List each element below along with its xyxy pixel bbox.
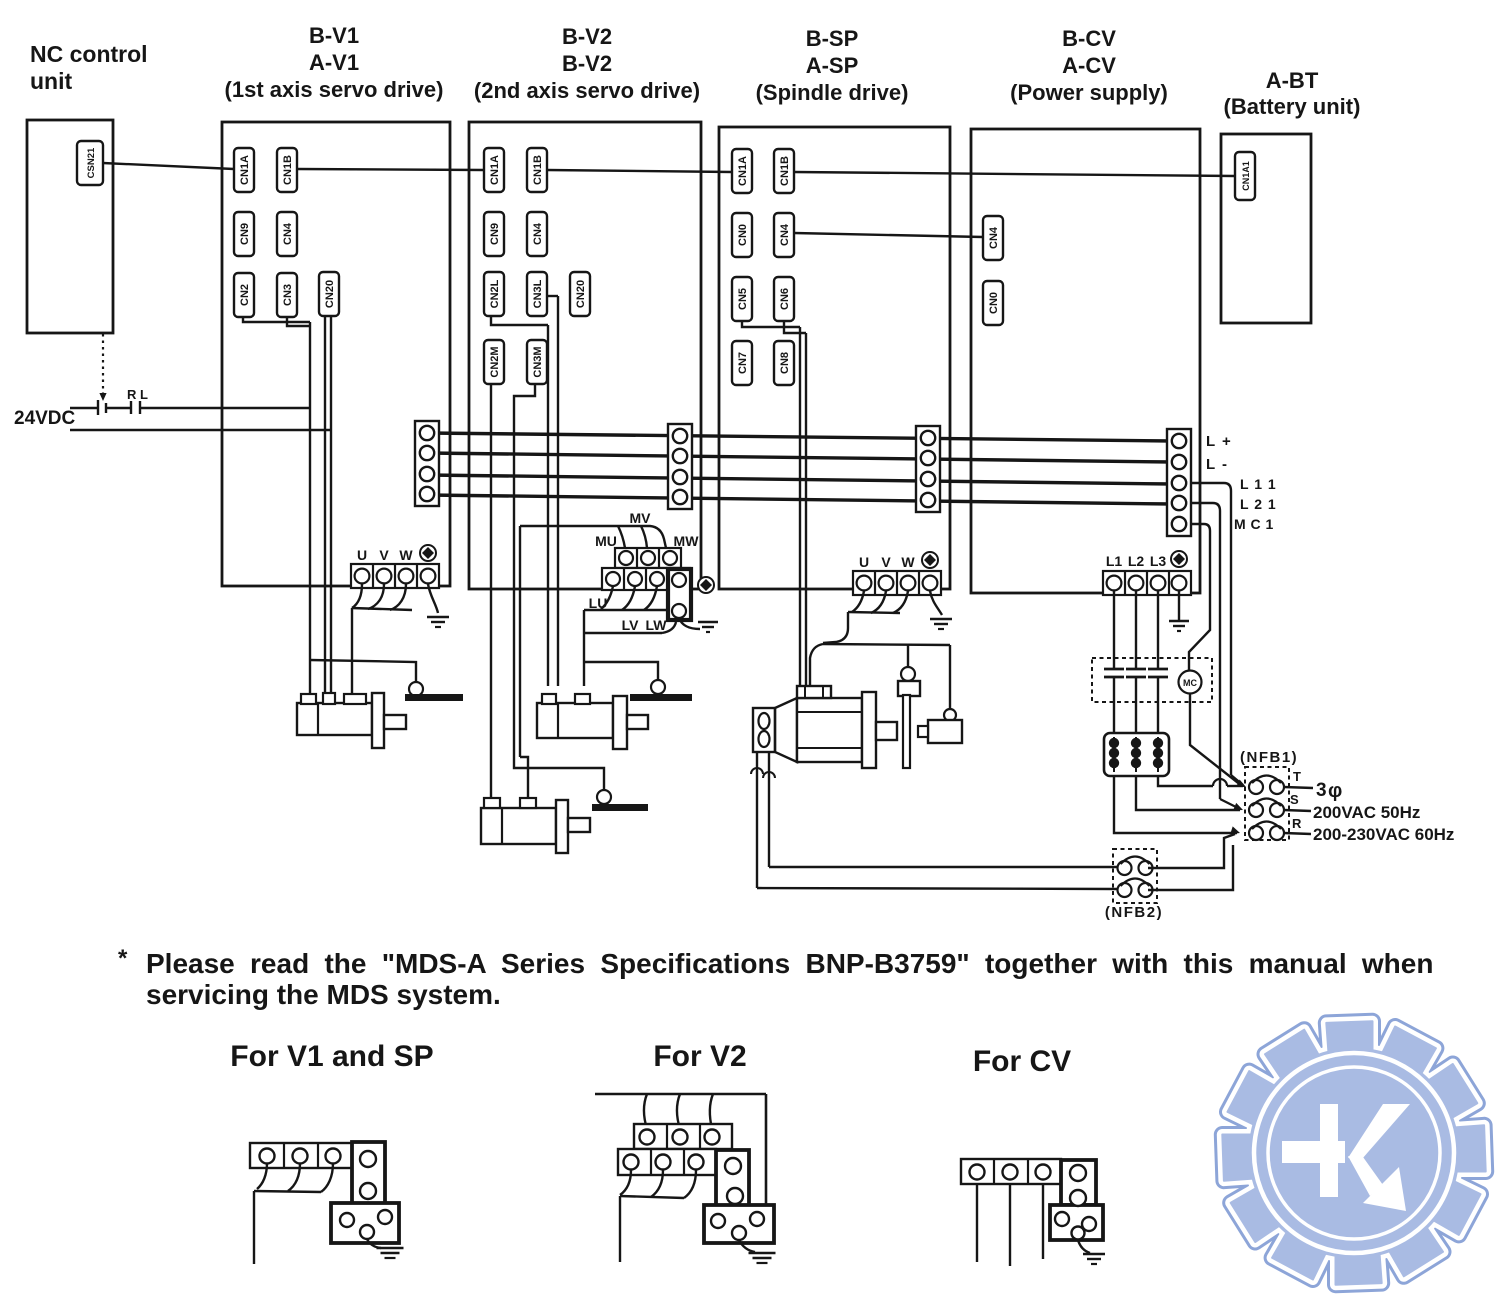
svg-text:W: W xyxy=(399,547,413,563)
svg-text:CN4: CN4 xyxy=(532,222,544,245)
svg-text:CN0: CN0 xyxy=(988,292,1000,314)
svg-text:Please read the "MDS-A Series: Please read the "MDS-A Series Specificat… xyxy=(146,948,1433,979)
svg-text:CN1B: CN1B xyxy=(532,155,544,185)
svg-text:CN3L: CN3L xyxy=(532,279,544,308)
svg-text:(Battery unit): (Battery unit) xyxy=(1224,94,1361,119)
svg-text:MU: MU xyxy=(595,533,617,549)
svg-text:V: V xyxy=(379,547,389,563)
svg-text:A-BT: A-BT xyxy=(1266,68,1319,93)
svg-text:CN6: CN6 xyxy=(779,288,791,310)
svg-text:L 1 1: L 1 1 xyxy=(1240,476,1277,492)
svg-text:L1: L1 xyxy=(1106,553,1123,569)
svg-text:φ: φ xyxy=(1328,780,1342,802)
svg-text:CN7: CN7 xyxy=(737,352,749,374)
svg-text:LV: LV xyxy=(622,617,640,633)
svg-text:200VAC 50Hz: 200VAC 50Hz xyxy=(1313,803,1420,822)
svg-text:For CV: For CV xyxy=(973,1045,1071,1078)
svg-text:B-CV: B-CV xyxy=(1062,26,1116,51)
svg-text:B-SP: B-SP xyxy=(806,26,859,51)
svg-text:24VDC: 24VDC xyxy=(14,408,76,429)
svg-text:R: R xyxy=(1292,816,1302,831)
svg-text:L 2 1: L 2 1 xyxy=(1240,496,1277,512)
svg-text:CN1A: CN1A xyxy=(239,155,251,185)
svg-text:CN9: CN9 xyxy=(239,223,251,245)
svg-text:CN2M: CN2M xyxy=(489,346,501,377)
svg-text:For V2: For V2 xyxy=(653,1040,746,1073)
svg-text:B-V2: B-V2 xyxy=(562,24,612,49)
svg-text:CN1B: CN1B xyxy=(779,156,791,186)
svg-text:CN20: CN20 xyxy=(575,280,587,308)
svg-text:S: S xyxy=(1290,792,1299,807)
svg-text:U: U xyxy=(859,554,869,570)
svg-text:For V1 and SP: For V1 and SP xyxy=(230,1040,433,1073)
svg-text:NC control: NC control xyxy=(30,41,148,67)
svg-text:U: U xyxy=(357,547,367,563)
svg-text:W: W xyxy=(901,554,915,570)
svg-text:CN20: CN20 xyxy=(324,280,336,308)
svg-text:L3: L3 xyxy=(1150,553,1167,569)
svg-text:CN4: CN4 xyxy=(779,223,791,246)
svg-text:LU: LU xyxy=(589,595,608,611)
svg-text:A-SP: A-SP xyxy=(806,53,859,78)
svg-text:R L: R L xyxy=(127,387,148,402)
svg-text:CN0: CN0 xyxy=(737,224,749,246)
svg-text:T: T xyxy=(1293,769,1301,784)
svg-text:200-230VAC 60Hz: 200-230VAC 60Hz xyxy=(1313,825,1454,844)
svg-text:CN2L: CN2L xyxy=(489,279,501,308)
svg-text:servicing the MDS system.: servicing the MDS system. xyxy=(146,979,501,1010)
svg-text:CN9: CN9 xyxy=(489,223,501,245)
svg-text:M C 1: M C 1 xyxy=(1234,516,1274,532)
svg-text:L -: L - xyxy=(1206,456,1229,473)
svg-text:A-CV: A-CV xyxy=(1062,53,1116,78)
svg-text:CN1A: CN1A xyxy=(737,156,749,186)
svg-text:(2nd axis servo drive): (2nd axis servo drive) xyxy=(474,78,700,103)
svg-text:L2: L2 xyxy=(1128,553,1145,569)
svg-text:CN4: CN4 xyxy=(282,222,294,245)
svg-text:3: 3 xyxy=(1316,780,1327,801)
svg-text:CN1B: CN1B xyxy=(282,155,294,185)
svg-text:V: V xyxy=(881,554,891,570)
svg-text:*: * xyxy=(118,945,128,972)
svg-text:MV: MV xyxy=(630,510,652,526)
svg-text:CN5: CN5 xyxy=(737,288,749,310)
svg-text:CN3M: CN3M xyxy=(532,346,544,377)
svg-text:MC: MC xyxy=(1183,678,1197,688)
svg-text:CSN21: CSN21 xyxy=(86,147,97,178)
svg-text:CN2: CN2 xyxy=(239,284,251,306)
svg-text:A-V1: A-V1 xyxy=(309,50,359,75)
svg-text:CN3: CN3 xyxy=(282,284,294,306)
svg-text:CN4: CN4 xyxy=(988,226,1000,249)
svg-text:B-V1: B-V1 xyxy=(309,23,359,48)
svg-text:L +: L + xyxy=(1206,433,1232,450)
svg-text:(NFB1): (NFB1) xyxy=(1240,749,1298,766)
svg-text:CN1A: CN1A xyxy=(489,155,501,185)
svg-text:CN1A1: CN1A1 xyxy=(1241,161,1251,191)
svg-text:(Spindle drive): (Spindle drive) xyxy=(756,80,909,105)
svg-text:CN8: CN8 xyxy=(779,352,791,374)
svg-text:unit: unit xyxy=(30,68,72,94)
svg-text:MW: MW xyxy=(674,533,700,549)
svg-text:(1st axis servo drive): (1st axis servo drive) xyxy=(225,77,444,102)
svg-text:LW: LW xyxy=(646,617,668,633)
svg-text:(Power supply): (Power supply) xyxy=(1010,80,1168,105)
svg-text:(NFB2): (NFB2) xyxy=(1105,904,1163,921)
svg-text:B-V2: B-V2 xyxy=(562,51,612,76)
